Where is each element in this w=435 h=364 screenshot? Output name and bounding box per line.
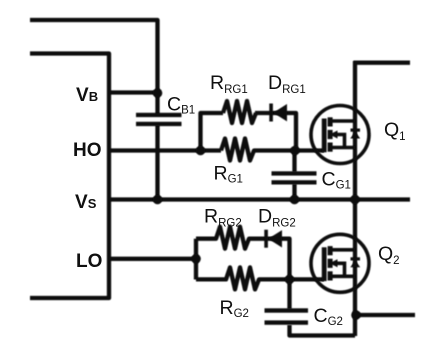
capacitor CG1 [272, 171, 317, 184]
wire: LO lower branch with resistor RG2 to Q2 gate [196, 267, 324, 289]
wire: CG2 top lead [287, 279, 291, 309]
wire: Q2 source output stub [355, 313, 415, 317]
IC gate-driver box outline [30, 54, 109, 299]
svg-text:RG1: RG1 [214, 163, 243, 186]
svg-text:CG1: CG1 [322, 169, 351, 192]
junction node HO left [196, 146, 206, 156]
svg-text:CG2: CG2 [314, 305, 343, 328]
junction Q1 source/VS [350, 195, 360, 205]
svg-text:RRG2: RRG2 [204, 206, 242, 230]
resistor RG1 [221, 139, 324, 161]
junction CB1/VS [153, 195, 163, 205]
svg-text:Q2: Q2 [378, 243, 400, 267]
wire: HO pin line with resistor RG1 to Q1 gate [109, 148, 221, 152]
junction Q2 source output [351, 310, 361, 320]
wire: LO pin stub [109, 257, 196, 261]
svg-text:RG2: RG2 [220, 297, 249, 320]
svg-text:RRG1: RRG1 [210, 72, 248, 96]
wire: VB pin stub [109, 90, 158, 94]
junction node Q1 gate [290, 146, 300, 156]
wire: LO bypass branch up-left vertical [194, 239, 198, 280]
svg-text:HO: HO [73, 140, 102, 161]
diode DRG1 [269, 104, 287, 122]
capacitor CG2 [265, 308, 309, 325]
svg-text:LO: LO [76, 251, 102, 272]
svg-text:DRG1: DRG1 [268, 72, 306, 96]
wire: top supply rail into CB1 column [30, 20, 158, 115]
junction CG1/VS [290, 195, 300, 205]
junction dot VB/rail [153, 88, 163, 98]
svg-text:VB: VB [76, 85, 98, 106]
svg-text:VS: VS [75, 192, 97, 213]
svg-text:DRG2: DRG2 [258, 206, 296, 230]
wire: CG2 bottom lead and return to source [290, 325, 356, 336]
wire: HO bypass branch right and down [255, 113, 296, 152]
capacitor CB1 [136, 113, 182, 126]
wire: CG1 top lead [292, 151, 296, 173]
wire: CG1 bottom lead [292, 184, 296, 200]
diode DRG2 [264, 230, 282, 248]
transistor Q2 (N-MOSFET with body diode) [311, 234, 369, 292]
svg-text:CB1: CB1 [167, 94, 195, 117]
svg-text:Q1: Q1 [384, 119, 406, 143]
wire: LO bypass branch top with resistor RRG2 [196, 227, 290, 280]
wire: CB1 bottom lead to VS [155, 125, 159, 200]
wire: HO bypass branch up-left [201, 113, 224, 153]
junction node LO [191, 254, 201, 264]
junction node Q2 gate [285, 275, 295, 285]
wire: top right rail [354, 61, 411, 65]
resistor RRG1 [223, 101, 256, 123]
wire: VS pin line [109, 197, 410, 201]
transistor Q1 (N-MOSFET with body diode) [311, 106, 369, 164]
wire: Q1/Q2 drain-source vertical rail [353, 61, 357, 336]
